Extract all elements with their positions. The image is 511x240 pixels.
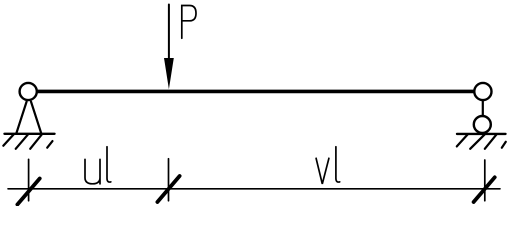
load arrow P — [164, 5, 174, 90]
roller support right: roller circle — [474, 116, 491, 133]
beam — [37, 90, 474, 94]
label ul — [85, 147, 111, 184]
label P — [182, 6, 196, 39]
ground hatching left — [3, 134, 52, 149]
label vl — [316, 147, 340, 184]
dimension tick left — [17, 159, 39, 204]
dimension tick right — [474, 160, 495, 202]
ground hatching right — [457, 134, 506, 149]
roller support right: upper hinge circle — [474, 83, 491, 100]
roller support right: connecting link — [482, 101, 484, 117]
pin support left: hinge circle — [20, 83, 37, 100]
dimension line — [8, 188, 500, 190]
pin support left: triangle legs — [16, 102, 41, 134]
ground line right — [457, 133, 506, 135]
dimension tick middle — [157, 159, 179, 202]
ground line left — [5, 133, 55, 135]
